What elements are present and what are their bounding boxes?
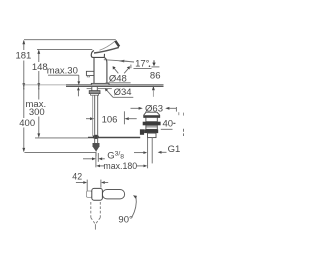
svg-text:300: 300: [29, 107, 45, 118]
top view: cap: [92, 188, 103, 200]
svg-text:106: 106: [102, 115, 118, 126]
drain extension lines: [147, 138, 149, 169]
svg-text:40: 40: [163, 119, 174, 130]
faucet body: [93, 58, 95, 85]
top view: spout stub: [86, 191, 92, 197]
leader to lever: [124, 60, 134, 63]
pop-up rod clevis: [140, 129, 144, 135]
deck / mounting surface: [23, 84, 66, 86]
wire dashed edge line right: [178, 112, 180, 115]
wire top extension line 181: [24, 39, 116, 41]
spout: [86, 71, 94, 75]
svg-text:86: 86: [150, 71, 161, 82]
svg-text:max.180: max.180: [103, 161, 137, 171]
svg-text:90°: 90°: [118, 215, 133, 226]
handle travel arrow: [153, 60, 155, 63]
lever (open position): [100, 41, 116, 50]
supply pipes: [92, 95, 94, 136]
wire 400 bottom reference line: [24, 151, 96, 153]
svg-text:42: 42: [72, 172, 82, 182]
wire left dimension line inner (148/max300): [38, 51, 40, 62]
shank and nut below deck: [91, 87, 93, 91]
dimension 106: [123, 111, 125, 124]
hose end connector: [93, 143, 100, 147]
wire lever closed position: [104, 60, 130, 62]
svg-text:Ø34: Ø34: [114, 87, 132, 98]
pop-up waste drain: [144, 112, 160, 117]
top view: lever blade: [102, 190, 124, 199]
svg-text:G1: G1: [168, 144, 181, 155]
wire left dimension line outer (181/400): [23, 41, 25, 50]
wire extension line 148: [37, 48, 92, 50]
86 arrow at deck: [152, 86, 155, 91]
svg-text:148: 148: [32, 62, 48, 73]
svg-text:17°: 17°: [135, 59, 150, 70]
node rod-pipe junction: [93, 135, 99, 139]
base escutcheon: [91, 83, 109, 85]
hidden body dashed: [90, 202, 92, 218]
dimension max.180: [96, 165, 100, 168]
svg-text:181: 181: [15, 51, 31, 62]
G3/8 arrows: [83, 158, 92, 160]
cartridge cap: [93, 54, 105, 58]
G3/8 extension ticks: [95, 153, 97, 167]
svg-text:400: 400: [19, 118, 35, 129]
90 degree swivel arc: [132, 197, 137, 217]
wire hose-length reference line / pop-up rod: [35, 137, 88, 139]
